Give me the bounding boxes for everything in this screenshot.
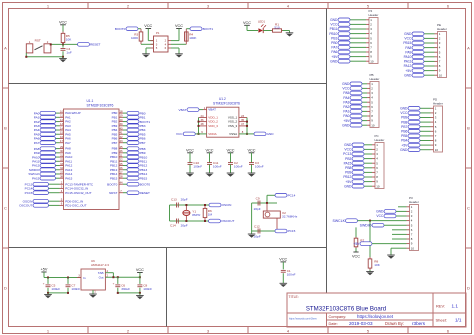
svg-text:GND: GND bbox=[400, 107, 408, 111]
svg-text:B: B bbox=[4, 126, 7, 131]
svg-text:Header: Header bbox=[409, 200, 419, 204]
svg-text:+5V: +5V bbox=[331, 55, 338, 59]
svg-text:15: 15 bbox=[60, 131, 64, 135]
svg-text:PA2: PA2 bbox=[343, 105, 349, 109]
svg-text:NRST: NRST bbox=[109, 191, 117, 195]
svg-text:B: B bbox=[467, 126, 470, 131]
svg-text:+5V: +5V bbox=[401, 143, 408, 147]
svg-text:SWCLK: SWCLK bbox=[333, 219, 346, 223]
svg-text:23: 23 bbox=[241, 114, 245, 118]
svg-text:Out: Out bbox=[99, 276, 104, 280]
svg-text:PB8: PB8 bbox=[401, 120, 407, 124]
svg-text:PA4: PA4 bbox=[343, 96, 349, 100]
svg-text:VCC: VCC bbox=[175, 24, 183, 28]
svg-text:D: D bbox=[4, 286, 7, 291]
svg-text:PA6: PA6 bbox=[331, 50, 337, 54]
svg-text:GND: GND bbox=[376, 210, 384, 214]
svg-text:VBAT: VBAT bbox=[179, 108, 187, 112]
svg-text:VDD_3: VDD_3 bbox=[208, 124, 218, 128]
svg-text:STM32F103C8T6 Blue Board: STM32F103C8T6 Blue Board bbox=[306, 305, 386, 312]
svg-text:10K: 10K bbox=[374, 263, 380, 267]
svg-text:GND: GND bbox=[344, 184, 352, 188]
svg-text:GND: GND bbox=[342, 123, 350, 127]
svg-text:P1: P1 bbox=[156, 31, 160, 35]
svg-text:VCC: VCC bbox=[226, 149, 234, 153]
svg-text:BOOT0: BOOT0 bbox=[140, 182, 151, 186]
svg-text:PB0: PB0 bbox=[331, 41, 337, 45]
svg-text:33: 33 bbox=[60, 162, 64, 166]
svg-text:REV:: REV: bbox=[436, 303, 445, 308]
svg-text:45: 45 bbox=[119, 145, 123, 149]
svg-text:VCC: VCC bbox=[59, 21, 67, 25]
svg-text:100nF: 100nF bbox=[71, 287, 80, 291]
svg-text:GND: GND bbox=[344, 143, 352, 147]
svg-text:VCC: VCC bbox=[404, 37, 412, 41]
svg-text:Sheet:: Sheet: bbox=[436, 318, 448, 323]
svg-text:Date:: Date: bbox=[329, 321, 338, 326]
svg-text:PB15: PB15 bbox=[140, 176, 148, 180]
svg-text:GND: GND bbox=[342, 82, 350, 86]
svg-text:Header: Header bbox=[369, 13, 379, 17]
svg-text:C13: C13 bbox=[171, 197, 177, 201]
svg-text:+5V: +5V bbox=[405, 69, 412, 73]
svg-text:20pF: 20pF bbox=[181, 224, 188, 228]
svg-text:STM32F103C8T6: STM32F103C8T6 bbox=[213, 101, 240, 105]
svg-text:https://easyeda.com/r3bers: https://easyeda.com/r3bers bbox=[289, 317, 318, 320]
svg-text:16: 16 bbox=[60, 135, 64, 139]
svg-text:PB7: PB7 bbox=[401, 125, 407, 129]
svg-text:330uF: 330uF bbox=[121, 287, 130, 291]
svg-text:28: 28 bbox=[119, 175, 123, 179]
svg-text:VCC: VCC bbox=[247, 149, 255, 153]
svg-text:26: 26 bbox=[119, 166, 123, 170]
svg-text:VCC: VCC bbox=[279, 258, 287, 262]
svg-text:PA5: PA5 bbox=[343, 91, 349, 95]
svg-text:GND: GND bbox=[330, 59, 338, 63]
svg-text:8MHz: 8MHz bbox=[192, 213, 201, 217]
svg-text:A: A bbox=[4, 46, 7, 51]
svg-text:18: 18 bbox=[119, 109, 123, 113]
svg-text:48: 48 bbox=[200, 122, 204, 126]
svg-text:VDDA: VDDA bbox=[208, 132, 216, 136]
svg-text:10: 10 bbox=[60, 109, 64, 113]
svg-text:Header: Header bbox=[370, 77, 380, 81]
svg-text:Company:: Company: bbox=[329, 314, 347, 319]
svg-text:PB12: PB12 bbox=[343, 175, 351, 179]
svg-text:17: 17 bbox=[60, 139, 64, 143]
svg-text:VCC: VCC bbox=[186, 149, 194, 153]
svg-text:1/1: 1/1 bbox=[455, 318, 462, 323]
svg-text:+: + bbox=[43, 282, 45, 286]
svg-text:TITLE:: TITLE: bbox=[289, 295, 299, 299]
svg-text:PB6: PB6 bbox=[401, 130, 407, 134]
svg-text:30: 30 bbox=[60, 149, 64, 153]
svg-text:10: 10 bbox=[376, 184, 380, 188]
svg-text:20: 20 bbox=[119, 118, 123, 122]
svg-text:100nF: 100nF bbox=[213, 165, 222, 169]
svg-text:100nF: 100nF bbox=[255, 165, 264, 169]
svg-text:12: 12 bbox=[60, 118, 64, 122]
svg-text:PB9: PB9 bbox=[401, 116, 407, 120]
svg-text:GND: GND bbox=[404, 32, 412, 36]
svg-text:38: 38 bbox=[60, 175, 64, 179]
svg-text:39: 39 bbox=[119, 122, 123, 126]
svg-text:11: 11 bbox=[60, 114, 63, 118]
svg-text:VBAT: VBAT bbox=[208, 108, 216, 112]
svg-text:VSS_3: VSS_3 bbox=[228, 124, 238, 128]
svg-text:10: 10 bbox=[439, 73, 443, 77]
svg-text:Header: Header bbox=[437, 27, 447, 31]
svg-text:2019-03-03: 2019-03-03 bbox=[349, 321, 373, 326]
svg-text:PB7: PB7 bbox=[140, 141, 146, 145]
svg-text:100nF: 100nF bbox=[234, 165, 243, 169]
svg-text:510: 510 bbox=[274, 25, 279, 29]
svg-text:10: 10 bbox=[371, 123, 375, 127]
svg-text:C12: C12 bbox=[254, 225, 260, 229]
svg-text:29: 29 bbox=[60, 145, 64, 149]
svg-text:PA11: PA11 bbox=[404, 60, 412, 64]
svg-text:100K: 100K bbox=[131, 36, 139, 40]
svg-text:100K: 100K bbox=[189, 36, 197, 40]
svg-text:VSSA: VSSA bbox=[229, 132, 237, 136]
svg-text:RESET: RESET bbox=[90, 43, 100, 47]
svg-text:20pF: 20pF bbox=[254, 207, 261, 211]
svg-text:Drawn By:: Drawn By: bbox=[385, 321, 404, 326]
svg-text:https://solovjov.net: https://solovjov.net bbox=[357, 314, 394, 319]
svg-text:20pF: 20pF bbox=[181, 197, 188, 201]
svg-text:OSCIN: OSCIN bbox=[222, 203, 232, 207]
svg-text:VCC: VCC bbox=[342, 87, 350, 91]
svg-text:GND: GND bbox=[400, 148, 408, 152]
svg-text:PC14: PC14 bbox=[288, 194, 296, 198]
svg-text:PB1: PB1 bbox=[331, 36, 337, 40]
svg-text:AMS1117-3.3: AMS1117-3.3 bbox=[91, 263, 109, 267]
svg-text:PC13: PC13 bbox=[343, 152, 351, 156]
svg-text:46: 46 bbox=[119, 149, 123, 153]
svg-text:+5V: +5V bbox=[353, 242, 360, 246]
svg-text:VCC: VCC bbox=[243, 21, 251, 25]
svg-text:PA0: PA0 bbox=[343, 114, 349, 118]
svg-text:32.768KHz: 32.768KHz bbox=[282, 215, 298, 219]
svg-text:42: 42 bbox=[119, 135, 123, 139]
svg-text:PA3: PA3 bbox=[343, 100, 349, 104]
svg-text:LED1: LED1 bbox=[258, 19, 265, 23]
svg-text:1M: 1M bbox=[208, 213, 213, 217]
svg-text:VCC: VCC bbox=[344, 148, 352, 152]
svg-text:BOOT1: BOOT1 bbox=[203, 27, 214, 31]
svg-text:10: 10 bbox=[411, 246, 415, 250]
svg-text:r3bers: r3bers bbox=[412, 321, 426, 326]
svg-text:VCC: VCC bbox=[136, 268, 144, 272]
svg-text:PD1-OSC_OUT: PD1-OSC_OUT bbox=[65, 204, 87, 208]
svg-text:10: 10 bbox=[435, 148, 439, 152]
svg-text:100nF: 100nF bbox=[143, 287, 152, 291]
svg-text:44: 44 bbox=[119, 181, 123, 185]
svg-text:PB4: PB4 bbox=[401, 139, 407, 143]
svg-text:+5V: +5V bbox=[343, 119, 350, 123]
svg-text:C: C bbox=[467, 206, 470, 211]
svg-text:Header: Header bbox=[375, 138, 385, 142]
svg-text:D: D bbox=[467, 286, 470, 291]
svg-text:OSCOUT: OSCOUT bbox=[19, 204, 32, 208]
svg-text:14: 14 bbox=[60, 126, 64, 130]
svg-text:VCC: VCC bbox=[144, 24, 152, 28]
svg-text:GND: GND bbox=[404, 73, 412, 77]
svg-text:35: 35 bbox=[241, 118, 245, 122]
svg-text:34: 34 bbox=[60, 166, 64, 170]
svg-text:PA15: PA15 bbox=[65, 176, 72, 180]
svg-text:41: 41 bbox=[119, 131, 123, 135]
svg-text:PB9: PB9 bbox=[345, 171, 351, 175]
svg-text:+5V: +5V bbox=[345, 180, 352, 184]
svg-text:21: 21 bbox=[119, 153, 123, 157]
svg-text:VCC: VCC bbox=[205, 149, 213, 153]
svg-text:43: 43 bbox=[119, 139, 123, 143]
svg-text:VCC: VCC bbox=[400, 111, 408, 115]
svg-text:C: C bbox=[4, 206, 7, 211]
svg-text:1uF: 1uF bbox=[66, 50, 71, 54]
svg-text:36: 36 bbox=[200, 118, 204, 122]
svg-text:PA15: PA15 bbox=[32, 176, 40, 180]
svg-text:PA1: PA1 bbox=[343, 110, 349, 114]
svg-text:BOOT0: BOOT0 bbox=[115, 27, 126, 31]
svg-text:22: 22 bbox=[119, 158, 123, 162]
svg-text:100nF: 100nF bbox=[287, 272, 296, 276]
svg-text:OSCOUT: OSCOUT bbox=[221, 219, 234, 223]
svg-text:40: 40 bbox=[119, 126, 123, 130]
svg-text:VCC: VCC bbox=[352, 255, 360, 259]
svg-text:27: 27 bbox=[119, 170, 123, 174]
svg-text:24: 24 bbox=[200, 114, 204, 118]
svg-text:PC15: PC15 bbox=[288, 229, 296, 233]
svg-text:In: In bbox=[83, 276, 86, 280]
svg-text:A: A bbox=[467, 46, 470, 51]
svg-text:1.1: 1.1 bbox=[452, 303, 459, 308]
svg-text:25: 25 bbox=[119, 162, 123, 166]
svg-text:VCC: VCC bbox=[176, 132, 183, 136]
svg-text:SWDIO: SWDIO bbox=[360, 223, 372, 227]
svg-text:PB11: PB11 bbox=[330, 27, 338, 31]
svg-text:PC15: PC15 bbox=[25, 191, 33, 195]
svg-text:10K: 10K bbox=[66, 38, 72, 42]
svg-text:RST: RST bbox=[35, 38, 41, 42]
svg-text:19: 19 bbox=[119, 114, 123, 118]
svg-text:10: 10 bbox=[370, 59, 374, 63]
svg-text:+5V: +5V bbox=[41, 268, 48, 272]
svg-text:STM32F103C8T6: STM32F103C8T6 bbox=[87, 103, 114, 107]
svg-text:TAB: TAB bbox=[98, 271, 104, 275]
svg-text:GND: GND bbox=[330, 18, 338, 22]
svg-text:PA7: PA7 bbox=[331, 46, 337, 50]
svg-text:PB7: PB7 bbox=[112, 141, 118, 145]
svg-text:PA7: PA7 bbox=[34, 141, 40, 145]
svg-text:100nF: 100nF bbox=[193, 165, 202, 169]
svg-text:PA9: PA9 bbox=[405, 50, 411, 54]
svg-text:PA8: PA8 bbox=[405, 46, 411, 50]
svg-text:PA10: PA10 bbox=[404, 55, 412, 59]
svg-text:47: 47 bbox=[241, 122, 245, 126]
svg-text:100uF: 100uF bbox=[51, 287, 60, 291]
svg-text:VCC: VCC bbox=[330, 23, 338, 27]
svg-text:GND: GND bbox=[267, 132, 275, 136]
svg-text:13: 13 bbox=[60, 122, 64, 126]
svg-text:31: 31 bbox=[60, 153, 64, 157]
svg-text:RESET: RESET bbox=[140, 191, 150, 195]
svg-text:37: 37 bbox=[60, 170, 64, 174]
svg-text:VCC: VCC bbox=[376, 214, 384, 218]
svg-text:PB15: PB15 bbox=[403, 41, 411, 45]
svg-text:PA7: PA7 bbox=[65, 141, 71, 145]
svg-text:+: + bbox=[113, 282, 115, 286]
svg-text:PB8: PB8 bbox=[345, 166, 351, 170]
svg-text:PB3: PB3 bbox=[345, 157, 351, 161]
svg-text:PA15: PA15 bbox=[344, 161, 352, 165]
svg-text:Header: Header bbox=[433, 101, 443, 105]
svg-text:C9: C9 bbox=[256, 196, 260, 200]
svg-text:PB5: PB5 bbox=[401, 134, 407, 138]
svg-text:PB15: PB15 bbox=[110, 176, 118, 180]
svg-text:BOOT0: BOOT0 bbox=[107, 182, 118, 186]
svg-text:C14: C14 bbox=[170, 224, 176, 228]
svg-text:PA12: PA12 bbox=[404, 64, 412, 68]
svg-text:PC15-OSC32_OUT: PC15-OSC32_OUT bbox=[65, 191, 92, 195]
svg-text:32: 32 bbox=[60, 158, 64, 162]
svg-text:PB10: PB10 bbox=[329, 32, 337, 36]
